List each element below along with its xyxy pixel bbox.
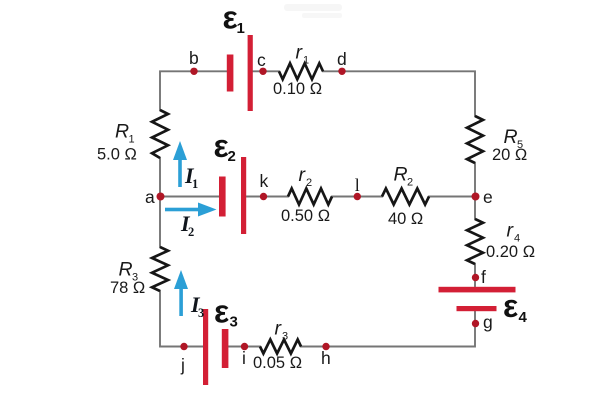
svg-text:ε: ε bbox=[214, 294, 229, 330]
node i bbox=[241, 343, 248, 350]
node e bbox=[472, 193, 480, 201]
wire top-left to battery E1 bbox=[160, 71, 227, 110]
current arrow I2 bbox=[165, 203, 217, 217]
wire R2 to node e bbox=[429, 196, 475, 198]
resistor R2 40 ohm bbox=[382, 189, 429, 205]
svg-text:k: k bbox=[260, 171, 269, 191]
battery E3 bbox=[203, 309, 228, 385]
svg-text:l: l bbox=[355, 175, 360, 195]
svg-text:2: 2 bbox=[407, 177, 413, 189]
wire bottom-left corner up to R3 bbox=[160, 291, 203, 347]
resistor R3 78 ohm bbox=[152, 247, 168, 291]
wire battery E1 to node c lead of r1 bbox=[253, 70, 279, 72]
wire left between R1 and R3 bbox=[159, 158, 161, 247]
battery E2 bbox=[219, 157, 246, 234]
svg-text:0.05 Ω: 0.05 Ω bbox=[253, 354, 302, 372]
svg-text:3: 3 bbox=[198, 306, 204, 320]
svg-text:ε: ε bbox=[503, 288, 518, 324]
svg-text:5.0 Ω: 5.0 Ω bbox=[97, 146, 137, 164]
svg-text:c: c bbox=[257, 50, 266, 70]
wire r2 to R2 lead bbox=[332, 196, 382, 198]
svg-text:f: f bbox=[481, 267, 486, 287]
resistor r4 0.20 ohm bbox=[467, 219, 483, 264]
svg-text:j: j bbox=[180, 355, 185, 375]
wire r4 to battery E4 long bar bbox=[474, 264, 476, 286]
svg-text:0.10 Ω: 0.10 Ω bbox=[273, 80, 322, 98]
current arrow I1 bbox=[173, 141, 187, 187]
resistor R5 20 ohm bbox=[467, 116, 483, 163]
svg-text:ε: ε bbox=[214, 128, 229, 164]
battery E4 bbox=[439, 287, 516, 311]
svg-text:2: 2 bbox=[228, 148, 236, 165]
svg-text:d: d bbox=[337, 49, 347, 69]
node j bbox=[180, 343, 187, 350]
svg-text:78 Ω: 78 Ω bbox=[110, 279, 145, 297]
svg-text:R: R bbox=[115, 121, 129, 143]
wire bottom: battery E3 to r3 lead bbox=[229, 346, 261, 348]
svg-text:20 Ω: 20 Ω bbox=[492, 146, 527, 164]
battery E1 bbox=[227, 35, 253, 111]
node b bbox=[190, 68, 197, 75]
svg-text:2: 2 bbox=[188, 225, 194, 239]
svg-text:g: g bbox=[483, 312, 493, 332]
node l bbox=[354, 193, 361, 200]
svg-text:R: R bbox=[394, 164, 408, 186]
svg-text:0.50 Ω: 0.50 Ω bbox=[281, 207, 330, 225]
node a bbox=[157, 193, 165, 201]
resistor r2 0.50 ohm bbox=[288, 189, 332, 205]
node dots bbox=[157, 68, 480, 351]
svg-text:0.20 Ω: 0.20 Ω bbox=[486, 243, 535, 261]
svg-text:1: 1 bbox=[192, 177, 198, 191]
svg-text:1: 1 bbox=[129, 134, 135, 146]
svg-text:2: 2 bbox=[306, 177, 312, 189]
svg-text:R: R bbox=[119, 259, 133, 281]
wire node a to battery E2 bbox=[160, 196, 219, 198]
svg-text:ε: ε bbox=[223, 0, 238, 36]
wire battery E2 to r2 lead bbox=[247, 196, 288, 198]
node f bbox=[472, 274, 479, 281]
resistor r1 0.10 ohm bbox=[279, 63, 323, 79]
svg-text:3: 3 bbox=[230, 314, 238, 331]
svg-text:R: R bbox=[504, 126, 518, 148]
node g bbox=[472, 320, 479, 327]
svg-text:3: 3 bbox=[282, 331, 288, 343]
wire R5 to node e to r4 bbox=[474, 163, 476, 219]
resistor R1 5.0 ohm bbox=[152, 110, 168, 158]
node d bbox=[338, 68, 345, 75]
svg-text:1: 1 bbox=[237, 20, 245, 37]
resistor r3 0.05 ohm bbox=[260, 340, 301, 354]
node h bbox=[322, 343, 329, 350]
svg-text:i: i bbox=[242, 348, 246, 368]
svg-text:b: b bbox=[189, 48, 199, 68]
svg-text:4: 4 bbox=[519, 309, 528, 326]
svg-text:h: h bbox=[321, 348, 331, 368]
wire E4 short bar to bottom-right corner bbox=[301, 311, 475, 347]
svg-text:1: 1 bbox=[303, 55, 309, 67]
wire r1 to top-right corner down to R5 bbox=[323, 71, 475, 116]
svg-text:40 Ω: 40 Ω bbox=[388, 210, 423, 228]
svg-text:e: e bbox=[483, 187, 493, 207]
current arrow I3 bbox=[174, 270, 188, 316]
smudge artifact top bbox=[284, 4, 342, 11]
node k bbox=[260, 193, 267, 200]
node c bbox=[259, 68, 266, 75]
svg-text:a: a bbox=[145, 187, 155, 207]
